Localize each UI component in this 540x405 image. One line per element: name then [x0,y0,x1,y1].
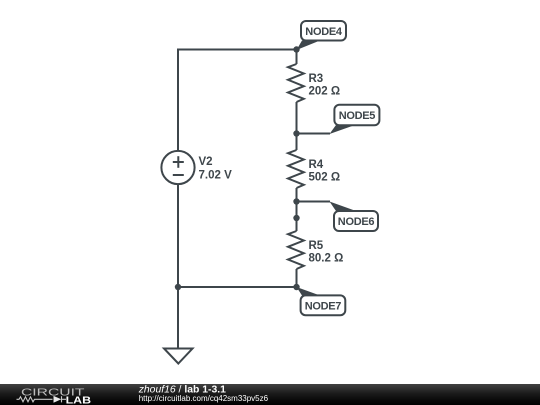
wire: NODE6 stub [297,201,331,203]
wire: bottom horizontal [178,286,297,288]
wire: top horizontal from source branch to NODE4 junction [178,50,297,152]
wire: NODE5 junction to R4 [296,134,298,151]
svg-text:http://circuitlab.com/cq42sm33: http://circuitlab.com/cq42sm33pv5z6 [139,394,269,403]
ground [164,349,193,364]
wire: source to bottom junction [177,184,179,287]
svg-text:R3: R3 [309,73,324,85]
svg-text:80.2 Ω: 80.2 Ω [309,253,344,265]
svg-text:502 Ω: 502 Ω [309,172,341,184]
wire: NODE5 stub [297,133,331,135]
svg-text:LAB: LAB [66,396,92,405]
node junction dot bottom-right [293,284,299,290]
flag tail NODE5 [330,125,356,134]
svg-text:R5: R5 [309,240,324,252]
node junction dot mid [293,215,299,221]
wire: R3 to NODE5 junction [296,102,298,134]
wire: R4 to NODE6 junction [296,188,298,202]
node junction dot NODE5 [293,130,299,136]
wire: R5 to bottom junction [296,269,298,287]
svg-text:R4: R4 [309,159,324,171]
resistor R3 [288,64,304,102]
resistor R4 [288,150,304,188]
svg-text:NODE4: NODE4 [305,26,343,38]
node flag box NODE4 [301,21,346,41]
svg-text:7.02 V: 7.02 V [199,170,233,182]
svg-text:NODE6: NODE6 [338,216,375,228]
wire: NODE4 junction down to R3 [296,50,298,65]
voltage source V2 [161,151,194,184]
wire: NODE6 junction to mid junction [296,202,298,219]
wire: bottom junction to ground [177,287,179,349]
svg-text:NODE5: NODE5 [339,110,376,122]
svg-text:V2: V2 [199,156,213,168]
flag tail NODE7 [297,287,321,296]
node flag box NODE5 [334,105,379,126]
footer bar [0,384,540,405]
node junction dot NODE6 [293,198,299,204]
svg-text:202 Ω: 202 Ω [309,86,341,98]
node flag box NODE7 [301,295,346,315]
svg-text:NODE7: NODE7 [305,300,342,312]
node flag box NODE6 [334,211,378,231]
flag tail NODE6 [330,202,357,212]
node junction dot NODE4 [293,46,299,52]
resistor R5 [288,231,304,269]
node junction dot bottom-left [175,284,181,290]
wire: mid junction to R5 [296,218,298,231]
flag tail NODE4 [297,41,321,51]
